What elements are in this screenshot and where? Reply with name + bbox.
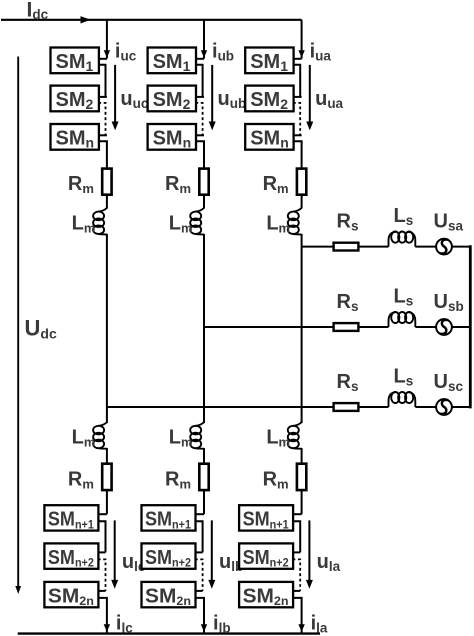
inductor Lm lower arm phase c (93, 422, 107, 449)
wire upper arm phase b from DC bus down to SM1 (203, 20, 205, 59)
wire SM2n output down to bottom bus phase b (195, 598, 204, 634)
svg-text:Rm: Rm (68, 173, 94, 196)
arrow u_ua (upper arm voltage) (309, 65, 311, 123)
svg-text:Lm: Lm (169, 427, 193, 450)
svg-text:Ls: Ls (394, 366, 414, 389)
svg-text:Ls: Ls (394, 286, 414, 309)
submodule SM2 upper arm phase c (51, 86, 99, 112)
wire connector SM2 to SMn upper phase a (dashed) (293, 103, 300, 135)
wire connector SMn+1 to SMn+2 lower phase a (293, 521, 301, 552)
wire Lm to phase node a (301, 234, 303, 247)
wire Rm down to SMn+1 lower phase c (106, 490, 108, 514)
inductor Ls phase b (389, 312, 416, 327)
resistor Rm lower arm phase a (297, 464, 306, 490)
wire top DC bus (1, 19, 302, 21)
resistor Rs phase b (334, 323, 359, 331)
wire stub SM2 upper input phase c (98, 96, 107, 98)
AC source Usa (436, 239, 452, 255)
submodule SM1 upper arm phase c (51, 48, 99, 74)
wire phase node c down to lower Lm (106, 407, 108, 423)
svg-text:Rm: Rm (165, 469, 191, 492)
wire connector SMn+2 to SM2n lower phase b (dashed) (195, 559, 203, 591)
arrowhead current i_lb (201, 624, 207, 632)
svg-text:iua: iua (310, 40, 332, 63)
resistor Rm upper arm phase c (102, 169, 111, 195)
wire Lm to phase node c (106, 234, 108, 407)
wire SMn output down to Rm upper phase b (195, 141, 204, 168)
svg-text:Rs: Rs (337, 211, 359, 234)
wire stub SMn upper input phase c (98, 134, 107, 136)
wire Udc measurement arrow (left DC link voltage) (17, 57, 19, 587)
submodule SM1 upper arm phase a (245, 48, 293, 74)
svg-text:ula: ula (317, 551, 341, 574)
svg-text:uua: uua (315, 88, 343, 111)
AC source Usb (436, 319, 452, 335)
svg-text:Rm: Rm (263, 469, 289, 492)
arrowhead u_uc (112, 122, 119, 131)
wire stub SM1 upper input phase a (293, 58, 302, 60)
svg-text:Lm: Lm (169, 213, 193, 236)
arrowhead current i_lc (104, 624, 110, 632)
resistor Rs phase a (334, 243, 359, 251)
wire Rm down to SMn+1 lower phase b (203, 490, 205, 514)
wire Rm down to SMn+1 lower phase a (301, 490, 303, 514)
wire phase c AC branch right segment (415, 406, 470, 408)
wire stub SM1 upper input phase b (195, 58, 204, 60)
inductor Lm lower arm phase b (190, 422, 204, 449)
submodule SMn upper arm phase a (245, 124, 293, 150)
arrowhead u_la (306, 580, 313, 589)
wire Rm to Lm upper phase a (301, 195, 303, 209)
arrowhead current i_la (298, 624, 304, 632)
svg-text:Rs: Rs (337, 291, 359, 314)
svg-text:Idc: Idc (27, 0, 49, 22)
svg-text:Ls: Ls (394, 205, 414, 228)
arrow u_lc (lower arm voltage) (114, 520, 116, 581)
wire phase a AC branch left segment (302, 246, 389, 248)
wire Lm to Rm lower phase a (301, 448, 303, 464)
wire connector SM1 to SM2 upper phase a (293, 65, 300, 97)
svg-text:iub: iub (212, 40, 234, 63)
resistor Rm lower arm phase b (199, 464, 208, 490)
wire upper arm phase a from DC bus down to SM1 (301, 20, 303, 59)
submodule SMn upper arm phase b (148, 124, 196, 150)
wire stub SM2n lower input phase c (98, 590, 106, 592)
svg-text:Lm: Lm (72, 427, 96, 450)
wire SMn output down to Rm upper phase a (293, 141, 302, 168)
submodule SMn upper arm phase c (51, 124, 99, 150)
wire stub SMn+2 lower input phase a (293, 551, 301, 553)
wire phase node a down to lower Lm (301, 247, 303, 424)
wire stub SMn+2 lower input phase c (98, 551, 106, 553)
wire stub SM1 upper input phase c (98, 58, 107, 60)
AC source Usc (436, 399, 452, 415)
arrowhead Idc current direction on top bus (81, 16, 91, 23)
svg-text:Rm: Rm (68, 469, 94, 492)
arrowhead u_lb (208, 580, 215, 589)
wire Rm to Lm upper phase b (203, 195, 205, 209)
submodule SMn+1 lower arm phase c (44, 505, 98, 531)
svg-text:uub: uub (218, 88, 247, 111)
wire connector SMn+1 to SMn+2 lower phase b (195, 521, 203, 552)
wire stub SM2 upper input phase a (293, 96, 302, 98)
wire phase c AC branch left segment (107, 406, 389, 408)
wire stub SMn+1 lower input phase a (293, 513, 302, 515)
svg-text:ila: ila (311, 613, 328, 636)
submodule SM1 upper arm phase b (148, 48, 196, 74)
wire SM2n output down to bottom bus phase c (98, 598, 107, 634)
arrow u_la (lower arm voltage) (308, 520, 310, 581)
submodule SM2n lower arm phase a (239, 582, 293, 608)
wire stub SMn+2 lower input phase b (195, 551, 203, 553)
svg-text:Lm: Lm (72, 213, 96, 236)
submodule SM2n lower arm phase b (142, 582, 196, 608)
wire connector SMn+2 to SM2n lower phase a (dashed) (293, 559, 301, 591)
wire stub SMn+1 lower input phase b (195, 513, 204, 515)
arrowhead Udc arrow (15, 586, 21, 594)
resistor Rs phase c (334, 403, 359, 411)
wire SMn output down to Rm upper phase c (98, 141, 107, 168)
submodule SMn+2 lower arm phase c (44, 543, 98, 569)
inductor Lm upper arm phase a (288, 208, 302, 235)
inductor Ls phase c (389, 392, 416, 407)
wire phase a AC branch right segment (415, 246, 470, 248)
svg-text:Usa: Usa (434, 211, 464, 234)
wire SM2n output down to bottom bus phase a (293, 598, 302, 634)
wire connector SM2 to SMn upper phase b (dashed) (195, 103, 202, 135)
wire stub SM2n lower input phase a (293, 590, 301, 592)
arrowhead u_lc (111, 580, 118, 589)
svg-text:Lm: Lm (266, 213, 290, 236)
arrowhead u_ua (306, 122, 313, 131)
resistor Rm upper arm phase a (297, 169, 306, 195)
wire stub SMn upper input phase a (293, 134, 302, 136)
wire phase node b down to lower Lm (203, 327, 205, 423)
inductor Ls phase a (389, 232, 416, 247)
arrowhead current i_ub (201, 50, 207, 58)
wire bottom DC bus (18, 632, 320, 634)
svg-text:Usb: Usb (434, 291, 464, 314)
wire Rm to Lm upper phase c (106, 195, 108, 209)
arrowhead current i_ua (298, 50, 304, 58)
submodule SMn+2 lower arm phase b (142, 543, 196, 569)
arrowhead u_ub (209, 122, 216, 131)
arrow u_ub (upper arm voltage) (211, 65, 213, 123)
wire connector SMn+1 to SMn+2 lower phase c (98, 521, 106, 552)
arrowhead current i_uc (104, 50, 110, 58)
arrow u_lb (lower arm voltage) (211, 520, 213, 581)
resistor Rm lower arm phase c (102, 464, 111, 490)
wire stub SMn upper input phase b (195, 134, 204, 136)
submodule SM2 upper arm phase b (148, 86, 196, 112)
wire connector SM1 to SM2 upper phase b (195, 65, 202, 97)
wire Lm to Rm lower phase b (203, 448, 205, 464)
svg-text:Rm: Rm (263, 173, 289, 196)
svg-text:Usc: Usc (434, 371, 464, 394)
inductor Lm lower arm phase a (288, 422, 302, 449)
wire phase b AC branch right segment (415, 326, 470, 328)
resistor Rm upper arm phase b (199, 169, 208, 195)
svg-text:uuc: uuc (120, 88, 148, 111)
wire upper arm phase c from DC bus down to SM1 (106, 20, 108, 59)
wire connector SMn+2 to SM2n lower phase c (dashed) (98, 559, 106, 591)
wire stub SM2n lower input phase b (195, 590, 203, 592)
submodule SMn+1 lower arm phase b (142, 505, 196, 531)
svg-text:ilb: ilb (213, 613, 231, 636)
arrow u_uc (upper arm voltage) (114, 65, 116, 123)
svg-text:ilc: ilc (116, 613, 133, 636)
inductor Lm upper arm phase b (190, 208, 204, 235)
submodule SM2 upper arm phase a (245, 86, 293, 112)
wire phase b AC branch left segment (204, 326, 389, 328)
wire connector SM1 to SM2 upper phase c (98, 65, 105, 97)
submodule SMn+2 lower arm phase a (239, 543, 293, 569)
svg-text:Rs: Rs (337, 371, 359, 394)
wire right AC bus (469, 245, 472, 408)
svg-text:Lm: Lm (266, 427, 290, 450)
wire stub SM2 upper input phase b (195, 96, 204, 98)
wire Lm to phase node b (203, 234, 205, 327)
wire connector SM2 to SMn upper phase c (dashed) (98, 103, 105, 135)
submodule SM2n lower arm phase c (44, 582, 98, 608)
svg-text:Rm: Rm (165, 173, 191, 196)
wire Lm to Rm lower phase c (106, 448, 108, 464)
submodule SMn+1 lower arm phase a (239, 505, 293, 531)
svg-text:iuc: iuc (115, 40, 137, 63)
inductor Lm upper arm phase c (93, 208, 107, 235)
svg-text:Udc: Udc (25, 316, 57, 342)
wire stub SMn+1 lower input phase c (98, 513, 107, 515)
